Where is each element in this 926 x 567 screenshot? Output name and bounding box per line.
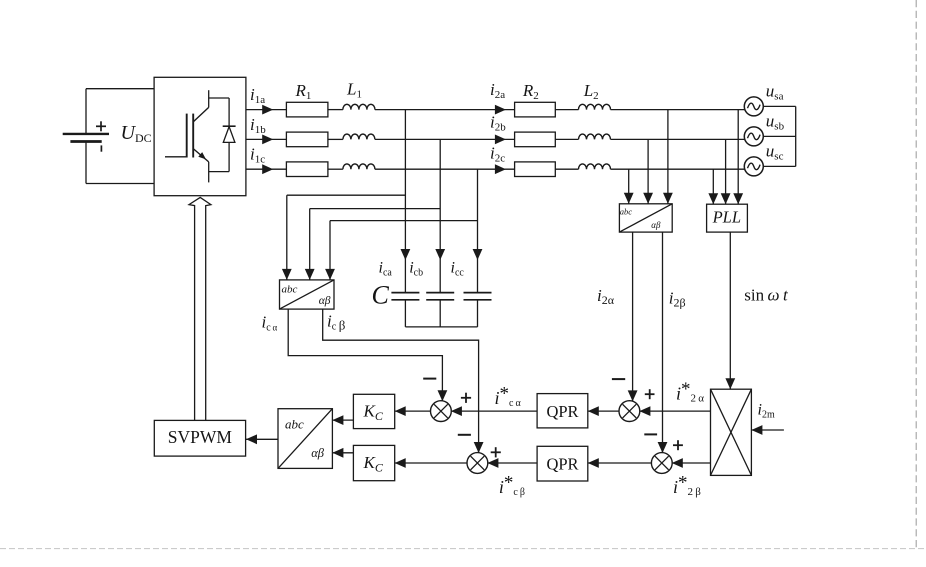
svg-text:usb: usb [766,111,785,132]
wire KC beta to inverse transform [332,452,353,454]
wire KC alpha to inverse transform [332,419,353,421]
wire u_sa tap to PLL [737,110,739,205]
svg-text:icc: icc [451,260,465,279]
resistor R1 phase a [286,102,328,117]
wire i2beta to summing M4 [662,232,664,453]
multiplier block (i2m x sin) [711,389,752,475]
svg-text:sin ω t: sin ω t [744,286,789,305]
sign plus at M1 [461,397,471,399]
AC source u_sb [744,127,763,146]
inductor L1 phase c [343,164,375,169]
summing junction M4 [651,453,672,474]
svg-text:KC: KC [363,453,384,475]
svg-text:ic β: ic β [327,312,346,333]
svg-text:i1c: i1c [250,145,265,166]
abc-to-alphabeta transform (capacitor currents) [280,280,335,309]
arrow i2b [495,135,506,145]
resistor R2 phase a [515,102,556,117]
wire i_ca branch horizontal [287,194,406,196]
svg-text:C: C [372,281,390,310]
sign plus at M3 [645,393,655,395]
AC source u_sc [744,157,763,176]
svg-text:QPR: QPR [546,402,578,421]
gain KC beta [353,445,394,480]
svg-text:i2m: i2m [758,402,775,421]
wire M4 to QPR beta [588,462,652,464]
summing junction M2 [467,453,488,474]
sign minus at M1 [423,378,436,380]
QPR controller alpha [537,394,588,428]
wire capacitor branch phase b [439,139,441,292]
svg-text:UDC: UDC [121,122,152,145]
svg-text:i*c β: i*c β [499,473,525,499]
wire capacitor branch phase c [477,169,479,292]
QPR controller beta [537,446,588,481]
resistor R1 phase b [286,132,328,147]
wire R1 to L1 phase c [328,168,343,170]
wire i2a tap to abc transform [667,110,669,204]
wire R2 to L2 phase b [555,138,578,140]
wire L1 to R2 phase c [375,168,515,170]
sign minus at M3 [612,378,625,380]
wire i2m input [751,429,784,431]
gate drive arrow SVPWM to inverter [189,197,211,420]
svg-text:KC: KC [363,402,384,424]
inductor L2 phase c [579,164,611,169]
gain KC alpha [353,394,394,428]
wire L1 to R2 phase b [375,138,515,140]
sign minus at M4 [644,433,657,435]
wire source u_sb to neutral bus [763,135,795,137]
wire DC negative bottom [86,183,154,185]
svg-text:icb: icb [409,260,423,279]
svg-text:i2c: i2c [490,143,505,164]
summing junction M3 [619,401,640,422]
arrow i_cc [473,249,483,260]
wire i2alpha to summing M3 [632,232,634,401]
polarity plus [96,125,106,127]
resistor R1 phase c [286,162,328,177]
svg-text:αβ: αβ [651,220,661,230]
svg-text:usa: usa [766,82,784,103]
svg-text:L1: L1 [346,80,362,101]
wire i_cc branch vertical [329,221,331,280]
arrow i1c [262,164,273,174]
diode D1 (antiparallel) [223,98,236,172]
inverter bridge box [154,77,246,195]
wire L2 to grid source phase a [611,109,745,111]
wire M1 to gain KC alpha [395,410,431,412]
arrow i2c [495,164,506,174]
svg-text:SVPWM: SVPWM [168,427,233,447]
wire capacitor c to star point [477,300,479,327]
svg-text:i2a: i2a [490,80,505,101]
arrow i1a [262,105,273,115]
wire L2 to grid source phase b [611,138,745,140]
svg-text:L2: L2 [583,81,599,102]
wire neutral bus [795,106,797,166]
wire capacitor b to star point [439,300,441,327]
wire i2c tap to abc transform [628,169,630,204]
wire source u_sc to neutral bus [763,165,795,167]
wire inverse transform to SVPWM [246,438,278,440]
capacitor C phase a [391,292,419,294]
wire L1 to R2 phase a [375,109,515,111]
AC source u_sa [744,97,763,116]
sign plus at M4 [673,444,683,446]
SVPWM modulator [154,420,245,456]
wire u_sb tap to PLL [725,139,727,204]
svg-text:αβ: αβ [319,295,331,307]
arrow i2a [495,105,506,115]
arrow i_cb [435,249,445,260]
wire capacitor branch phase a [404,110,406,293]
svg-text:i*2 α: i*2 α [676,379,704,405]
capacitor C phase c [464,292,492,294]
svg-text:abc: abc [285,417,304,432]
wire i_cb branch horizontal [310,208,441,210]
wire capacitor star point bus [405,326,477,328]
svg-text:abc: abc [282,284,298,296]
svg-text:i1b: i1b [250,115,266,136]
svg-text:i2b: i2b [490,112,506,133]
svg-text:R2: R2 [522,81,539,102]
svg-text:QPR: QPR [546,454,578,473]
svg-text:R1: R1 [295,81,312,102]
svg-text:ic α: ic α [262,313,278,334]
summing junction M1 [431,401,452,422]
wire multiplier to summing M4 [672,462,711,464]
wire i_c_alpha feedback to M1 [288,309,442,401]
resistor R2 phase c [515,162,556,177]
wire L2 to grid source phase c [611,168,745,170]
wire M2 to gain KC beta [395,462,468,464]
wire inverter output phase a [246,109,287,111]
inductor L2 phase a [579,104,611,109]
wire R2 to L2 phase a [555,109,578,111]
svg-text:i1a: i1a [250,85,265,106]
alphabeta-to-abc inverse transform [278,409,332,469]
wire R1 to L1 phase b [328,138,343,140]
abc-to-alphabeta transform (grid currents) [619,204,672,232]
svg-text:ica: ica [379,259,393,278]
svg-text:i*2 β: i*2 β [673,473,701,499]
wire capacitor a to star point [404,300,406,327]
wire R2 to L2 phase c [555,168,578,170]
DC source U_DC (battery) [63,133,109,135]
IGBT Q1 [165,90,229,182]
wire DC positive vertical [85,89,87,134]
svg-text:i2β: i2β [669,288,686,309]
inductor L1 phase a [343,104,375,109]
svg-text:i*c α: i*c α [495,384,522,410]
inductor L2 phase b [579,134,611,139]
wire i_ca branch vertical [286,195,288,280]
wire inverter output phase b [246,138,287,140]
capacitor C phase b [426,292,454,294]
wire multiplier to summing M3 [639,410,710,412]
wire source u_sa to neutral bus [763,105,795,107]
arrow i1b [262,135,273,145]
svg-text:αβ: αβ [311,446,325,460]
svg-text:i2α: i2α [597,286,615,307]
svg-text:PLL: PLL [712,208,741,227]
svg-text:usc: usc [766,141,784,162]
wire R1 to L1 phase a [328,109,343,111]
wire sin(wt) PLL to multiplier [729,232,731,389]
wire QPR alpha to summing M1 [451,410,537,412]
wire inverter output phase c [246,168,287,170]
sign minus at M2 [458,434,471,436]
wire i_cc branch horizontal [330,220,478,222]
wire i2b tap to abc transform [647,139,649,203]
wire u_sc tap to PLL [712,169,714,204]
arrow i_ca [401,249,411,260]
wire i_c_beta feedback to M2 [323,309,479,453]
polarity minus tick [100,145,102,151]
svg-text:abc: abc [620,206,633,216]
resistor R2 phase b [515,132,556,147]
sign plus at M2 [491,451,501,453]
PLL block [707,204,748,232]
inductor L1 phase b [343,134,375,139]
wire DC positive top [86,88,154,90]
wire M3 to QPR alpha [588,410,620,412]
wire DC negative vertical [85,142,87,184]
wire i_cb branch vertical [309,209,311,280]
wire QPR beta to summing M2 [487,462,537,464]
